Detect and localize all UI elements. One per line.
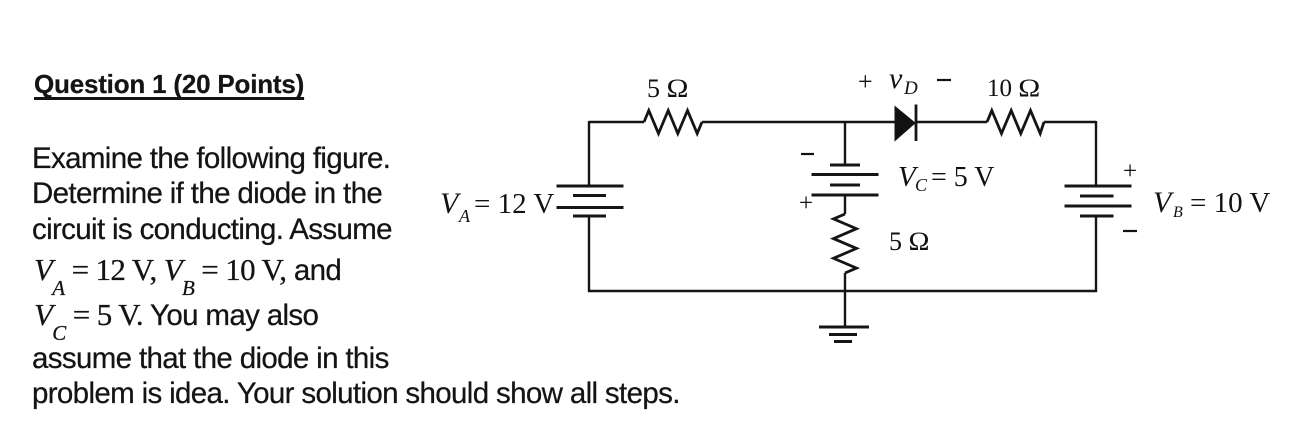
label v_D <box>889 62 918 99</box>
resistor R1 5-ohm (top left) <box>644 111 702 134</box>
svg-text:5 Ω: 5 Ω <box>889 227 930 256</box>
label minus for V_B <box>1123 230 1137 232</box>
wire: middle vertical (R3 to bottom wire) <box>844 273 846 291</box>
wire: top right horizontal (R2 to right corner) <box>1044 121 1096 123</box>
label 10 ohm for R2 <box>987 75 1040 102</box>
svg-text:+: + <box>799 190 813 217</box>
label + for V_C <box>799 190 813 217</box>
paragraph line 5 <box>34 298 318 333</box>
wire: top left horizontal (battery A top to 5-ohm resistor) <box>589 121 644 123</box>
battery V_C plates <box>812 165 879 195</box>
label 5 ohm for R1 <box>647 74 689 103</box>
wire: middle vertical (battery C to resistor R3) <box>844 195 846 214</box>
label V_B = 10 V <box>1153 186 1270 221</box>
wire: bottom horizontal <box>588 290 1097 292</box>
label minus for v_D <box>937 79 951 81</box>
label V_C = 5 V <box>898 161 995 195</box>
wire: right vertical lower (battery B to bottom wire) <box>1095 216 1097 292</box>
paragraph line 6 <box>32 343 389 376</box>
battery V_A plates <box>557 186 624 216</box>
wire: left vertical upper (top wire down to battery A) <box>588 121 590 186</box>
svg-text:10 Ω: 10 Ω <box>987 75 1040 102</box>
svg-text:B: B <box>1173 204 1183 221</box>
wire: right vertical upper (top wire to battery B) <box>1095 121 1097 186</box>
diode D1 triangle (anode) <box>895 107 915 141</box>
svg-text:C: C <box>915 175 928 195</box>
paragraph line 7 <box>32 378 680 411</box>
label V_A = 12 V <box>440 187 554 226</box>
label 5 ohm for R3 <box>889 227 930 256</box>
svg-text:v: v <box>889 62 903 95</box>
svg-text:V: V <box>1153 186 1175 219</box>
diode D1 cathode bar <box>915 105 918 142</box>
resistor R3 5-ohm (middle vertical) <box>834 214 857 273</box>
svg-text:= 10 V: = 10 V <box>1190 187 1270 219</box>
paragraph line 1 <box>32 143 390 176</box>
paragraph line 4 <box>34 253 341 288</box>
paragraph line 2 <box>32 178 382 211</box>
wire: middle vertical upper (top wire to battery C) <box>844 121 846 165</box>
svg-text:D: D <box>903 78 918 99</box>
paragraph line 3 <box>32 214 392 247</box>
svg-text:+: + <box>858 67 873 96</box>
wire: diode cathode to 10-ohm resistor <box>917 121 987 123</box>
label + for v_D <box>858 67 873 96</box>
label minus for V_C <box>801 153 814 155</box>
battery V_B plates <box>1065 186 1132 216</box>
wire: ground stem <box>844 291 846 327</box>
wire: top middle horizontal (R1 to diode anode, through node at x=845) <box>702 121 895 123</box>
svg-text:= 5 V: = 5 V <box>931 162 995 193</box>
svg-text:5 Ω: 5 Ω <box>647 74 689 103</box>
svg-text:A: A <box>458 206 471 226</box>
wire: left vertical lower (battery A to bottom wire) <box>588 216 590 292</box>
ground symbol <box>819 327 869 342</box>
svg-text:+: + <box>1123 158 1137 185</box>
label + for V_B <box>1123 158 1137 185</box>
heading: Question 1 (20 Points) <box>34 70 304 99</box>
svg-text:= 12 V: = 12 V <box>474 188 554 220</box>
resistor R2 10-ohm (top right) <box>987 111 1044 134</box>
